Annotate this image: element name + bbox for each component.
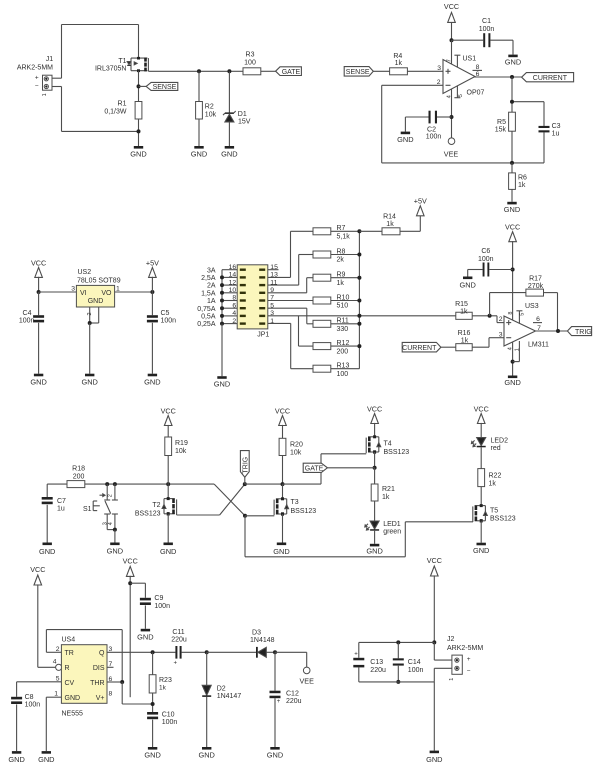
svg-text:GND: GND bbox=[473, 546, 489, 555]
svg-text:0,1/3W: 0,1/3W bbox=[104, 108, 127, 115]
svg-text:TRIG: TRIG bbox=[575, 329, 592, 336]
svg-text:NE555: NE555 bbox=[62, 710, 84, 717]
svg-text:8: 8 bbox=[508, 312, 514, 315]
svg-text:100n: 100n bbox=[19, 317, 35, 324]
svg-text:TRIG: TRIG bbox=[243, 457, 250, 474]
svg-text:100: 100 bbox=[244, 60, 256, 67]
svg-text:1k: 1k bbox=[337, 280, 345, 287]
svg-text:R15: R15 bbox=[455, 301, 468, 308]
svg-text:1,5A: 1,5A bbox=[201, 290, 216, 297]
svg-text:VCC: VCC bbox=[161, 406, 176, 415]
svg-text:R2: R2 bbox=[205, 103, 214, 110]
svg-text:1: 1 bbox=[42, 93, 48, 96]
svg-text:C11: C11 bbox=[172, 629, 184, 636]
svg-text:S1: S1 bbox=[83, 506, 92, 513]
svg-text:+5V: +5V bbox=[146, 258, 159, 267]
svg-text:T4: T4 bbox=[384, 441, 392, 448]
svg-text:R18: R18 bbox=[72, 466, 85, 473]
svg-text:R17: R17 bbox=[529, 275, 542, 282]
svg-text:0,25A: 0,25A bbox=[197, 321, 216, 328]
svg-text:100n: 100n bbox=[161, 317, 177, 324]
svg-text:8: 8 bbox=[109, 691, 113, 698]
svg-text:C8: C8 bbox=[25, 694, 34, 701]
svg-text:220u: 220u bbox=[171, 636, 187, 643]
svg-text:C6: C6 bbox=[481, 248, 490, 255]
svg-text:LED1: LED1 bbox=[383, 521, 401, 528]
svg-text:4: 4 bbox=[507, 347, 513, 350]
svg-text:100n: 100n bbox=[478, 256, 494, 263]
svg-text:2,5A: 2,5A bbox=[201, 275, 216, 282]
svg-text:C4: C4 bbox=[23, 310, 32, 317]
svg-text:GND: GND bbox=[137, 632, 153, 641]
svg-text:−: − bbox=[35, 83, 39, 90]
svg-text:OP07: OP07 bbox=[467, 90, 485, 97]
svg-text:C3: C3 bbox=[552, 123, 561, 130]
svg-text:2k: 2k bbox=[337, 257, 345, 264]
svg-text:GND: GND bbox=[144, 377, 160, 386]
svg-text:5: 5 bbox=[519, 313, 525, 316]
svg-text:GND: GND bbox=[505, 57, 521, 66]
svg-text:1N4148: 1N4148 bbox=[250, 637, 275, 644]
svg-text:GND: GND bbox=[8, 755, 24, 764]
svg-text:JP1: JP1 bbox=[257, 331, 269, 338]
svg-text:D1: D1 bbox=[238, 111, 247, 118]
svg-text:GND: GND bbox=[191, 150, 207, 159]
svg-text:C12: C12 bbox=[286, 690, 299, 697]
svg-text:R4: R4 bbox=[393, 53, 402, 60]
svg-text:C2: C2 bbox=[427, 126, 436, 133]
svg-text:VCC: VCC bbox=[123, 557, 138, 566]
svg-text:R12: R12 bbox=[337, 340, 350, 347]
svg-text:1A: 1A bbox=[207, 298, 216, 305]
svg-text:V+: V+ bbox=[96, 695, 105, 702]
svg-text:R1: R1 bbox=[118, 100, 127, 107]
svg-text:1: 1 bbox=[54, 691, 58, 698]
svg-text:100n: 100n bbox=[479, 26, 495, 33]
svg-text:R5: R5 bbox=[497, 119, 506, 126]
svg-text:+: + bbox=[174, 661, 178, 667]
svg-text:1k: 1k bbox=[518, 182, 526, 189]
svg-text:3A: 3A bbox=[207, 267, 216, 274]
svg-text:8: 8 bbox=[232, 295, 236, 302]
svg-text:R3: R3 bbox=[246, 52, 255, 59]
svg-text:GND: GND bbox=[366, 547, 382, 556]
svg-text:GND: GND bbox=[88, 298, 104, 305]
svg-text:1: 1 bbox=[449, 678, 455, 681]
svg-text:red: red bbox=[491, 445, 501, 452]
svg-text:SENSE: SENSE bbox=[346, 69, 370, 76]
svg-text:1k: 1k bbox=[460, 308, 468, 315]
svg-text:CURRENT: CURRENT bbox=[402, 345, 437, 352]
svg-text:GATE: GATE bbox=[282, 69, 301, 76]
svg-text:GND: GND bbox=[504, 378, 520, 387]
svg-text:1: 1 bbox=[116, 285, 120, 292]
svg-text:VCC: VCC bbox=[444, 2, 459, 11]
svg-text:C10: C10 bbox=[162, 711, 175, 718]
svg-text:LM311: LM311 bbox=[528, 342, 549, 349]
svg-text:2A: 2A bbox=[207, 283, 216, 290]
svg-text:GND: GND bbox=[214, 380, 230, 389]
svg-text:R10: R10 bbox=[337, 294, 350, 301]
svg-text:R23: R23 bbox=[159, 677, 172, 684]
svg-text:GND: GND bbox=[426, 755, 442, 764]
svg-text:270k: 270k bbox=[528, 283, 544, 290]
svg-text:3: 3 bbox=[437, 65, 441, 72]
svg-text:3: 3 bbox=[71, 285, 75, 292]
svg-text:T2: T2 bbox=[152, 502, 160, 509]
svg-text:1k: 1k bbox=[461, 337, 469, 344]
svg-text:100n: 100n bbox=[162, 719, 178, 726]
svg-text:GND: GND bbox=[221, 150, 237, 159]
svg-text:T5: T5 bbox=[490, 508, 498, 515]
svg-text:VCC: VCC bbox=[427, 556, 442, 565]
svg-text:200: 200 bbox=[337, 348, 349, 355]
svg-text:−: − bbox=[467, 667, 471, 674]
svg-text:100n: 100n bbox=[426, 133, 442, 140]
svg-text:2: 2 bbox=[87, 312, 93, 315]
svg-text:100: 100 bbox=[337, 371, 349, 378]
svg-text:10k: 10k bbox=[205, 112, 217, 119]
svg-text:4: 4 bbox=[446, 95, 452, 98]
svg-text:US3: US3 bbox=[525, 303, 539, 310]
svg-text:78L05 SOT89: 78L05 SOT89 bbox=[77, 278, 121, 285]
svg-text:1k: 1k bbox=[159, 684, 167, 691]
svg-text:ARK2-5MM: ARK2-5MM bbox=[17, 65, 53, 72]
svg-text:+: + bbox=[467, 656, 471, 663]
svg-text:US2: US2 bbox=[78, 269, 92, 276]
svg-text:5: 5 bbox=[458, 94, 464, 97]
svg-text:VO: VO bbox=[101, 290, 112, 297]
svg-text:VCC: VCC bbox=[474, 404, 489, 413]
svg-text:10: 10 bbox=[229, 287, 237, 294]
svg-text:green: green bbox=[383, 529, 401, 536]
svg-text:GND: GND bbox=[30, 377, 46, 386]
svg-text:7: 7 bbox=[537, 325, 541, 332]
svg-text:0,75A: 0,75A bbox=[197, 306, 216, 313]
svg-text:BSS123: BSS123 bbox=[291, 508, 317, 515]
svg-text:+: + bbox=[35, 74, 39, 81]
svg-text:1u: 1u bbox=[57, 506, 65, 513]
svg-text:GND: GND bbox=[81, 377, 97, 386]
svg-text:US4: US4 bbox=[62, 637, 76, 644]
svg-text:12: 12 bbox=[229, 279, 237, 286]
svg-text:+: + bbox=[354, 651, 358, 657]
svg-text:GND: GND bbox=[38, 755, 54, 764]
svg-text:5,1k: 5,1k bbox=[337, 234, 351, 241]
svg-text:R7: R7 bbox=[337, 225, 346, 232]
svg-text:3: 3 bbox=[499, 331, 503, 338]
svg-text:R21: R21 bbox=[382, 486, 395, 493]
svg-text:US1: US1 bbox=[463, 55, 477, 62]
svg-text:J1: J1 bbox=[46, 56, 54, 63]
svg-text:VEE: VEE bbox=[444, 150, 459, 159]
svg-text:10k: 10k bbox=[175, 448, 187, 455]
svg-text:1: 1 bbox=[515, 348, 521, 351]
svg-text:R11: R11 bbox=[337, 318, 349, 325]
svg-text:R19: R19 bbox=[175, 440, 188, 447]
svg-text:C14: C14 bbox=[408, 659, 421, 666]
svg-text:1N4147: 1N4147 bbox=[217, 693, 242, 700]
svg-text:C9: C9 bbox=[154, 595, 163, 602]
svg-text:1u: 1u bbox=[552, 131, 560, 138]
svg-text:15V: 15V bbox=[238, 118, 251, 125]
svg-text:C13: C13 bbox=[370, 659, 383, 666]
svg-text:VI: VI bbox=[80, 290, 87, 297]
svg-text:R22: R22 bbox=[489, 472, 502, 479]
svg-text:GND: GND bbox=[504, 205, 520, 214]
svg-text:Q: Q bbox=[99, 650, 105, 657]
svg-text:BSS123: BSS123 bbox=[490, 516, 516, 523]
svg-text:D2: D2 bbox=[217, 686, 226, 693]
svg-text:14: 14 bbox=[229, 272, 237, 279]
svg-text:TR: TR bbox=[65, 650, 74, 657]
svg-text:R16: R16 bbox=[458, 330, 471, 337]
svg-text:200: 200 bbox=[73, 473, 85, 480]
svg-text:T1: T1 bbox=[118, 58, 126, 65]
svg-text:1k: 1k bbox=[395, 60, 403, 67]
svg-text:VCC: VCC bbox=[505, 223, 520, 232]
svg-text:R6: R6 bbox=[518, 175, 527, 182]
svg-text:GND: GND bbox=[273, 547, 289, 556]
svg-text:BSS123: BSS123 bbox=[135, 511, 161, 518]
svg-text:BSS123: BSS123 bbox=[384, 449, 410, 456]
svg-text:6: 6 bbox=[476, 71, 480, 78]
svg-text:DIS: DIS bbox=[93, 665, 105, 672]
svg-text:D3: D3 bbox=[252, 630, 261, 637]
svg-text:R20: R20 bbox=[290, 442, 303, 449]
svg-text:6: 6 bbox=[536, 316, 540, 323]
svg-text:VCC: VCC bbox=[31, 258, 46, 267]
svg-text:15k: 15k bbox=[495, 126, 507, 133]
svg-text:GND: GND bbox=[267, 750, 283, 759]
svg-text:C1: C1 bbox=[482, 18, 491, 25]
svg-text:GND: GND bbox=[160, 547, 176, 556]
svg-text:T3: T3 bbox=[291, 499, 299, 506]
svg-text:GND: GND bbox=[130, 150, 146, 159]
svg-text:GND: GND bbox=[39, 547, 55, 556]
svg-text:1k: 1k bbox=[382, 494, 390, 501]
svg-text:R8: R8 bbox=[337, 248, 346, 255]
svg-text:C5: C5 bbox=[161, 310, 170, 317]
svg-text:R14: R14 bbox=[383, 213, 396, 220]
svg-text:220u: 220u bbox=[286, 698, 302, 705]
svg-text:100n: 100n bbox=[408, 667, 424, 674]
svg-text:CV: CV bbox=[65, 680, 75, 687]
svg-text:GND: GND bbox=[144, 751, 160, 760]
svg-text:GND: GND bbox=[397, 135, 413, 144]
svg-text:SENSE: SENSE bbox=[153, 84, 177, 91]
svg-text:1k: 1k bbox=[386, 221, 394, 228]
svg-text:1k: 1k bbox=[489, 480, 497, 487]
svg-text:GND: GND bbox=[198, 750, 214, 759]
svg-text:GND: GND bbox=[107, 546, 123, 555]
svg-text:GATE: GATE bbox=[305, 466, 324, 473]
svg-text:VEE: VEE bbox=[300, 676, 315, 685]
svg-text:ARK2-5MM: ARK2-5MM bbox=[447, 645, 483, 652]
svg-text:GND: GND bbox=[459, 280, 475, 289]
svg-text:0,5A: 0,5A bbox=[201, 314, 216, 321]
svg-text:4: 4 bbox=[232, 310, 236, 317]
svg-text:VCC: VCC bbox=[30, 565, 45, 574]
svg-text:CURRENT: CURRENT bbox=[533, 75, 568, 82]
svg-text:THR: THR bbox=[90, 680, 104, 687]
svg-text:330: 330 bbox=[337, 326, 349, 333]
svg-text:+: + bbox=[277, 699, 281, 705]
svg-text:GND: GND bbox=[65, 695, 81, 702]
svg-text:4: 4 bbox=[53, 658, 57, 665]
svg-text:LED2: LED2 bbox=[491, 437, 509, 444]
svg-text:510: 510 bbox=[337, 303, 349, 310]
svg-text:IRL3705N: IRL3705N bbox=[95, 66, 127, 73]
svg-text:10k: 10k bbox=[290, 450, 302, 457]
svg-text:+5V: +5V bbox=[414, 197, 427, 206]
svg-text:R9: R9 bbox=[337, 272, 346, 279]
svg-text:VCC: VCC bbox=[367, 404, 382, 413]
svg-text:2: 2 bbox=[108, 494, 114, 497]
svg-text:2: 2 bbox=[499, 316, 503, 323]
svg-text:100n: 100n bbox=[154, 603, 170, 610]
svg-text:4: 4 bbox=[108, 522, 114, 525]
svg-text:16: 16 bbox=[229, 264, 237, 271]
svg-text:6: 6 bbox=[232, 302, 236, 309]
svg-text:R13: R13 bbox=[337, 363, 350, 370]
svg-text:C7: C7 bbox=[57, 498, 66, 505]
svg-text:220u: 220u bbox=[370, 667, 386, 674]
svg-text:7: 7 bbox=[446, 59, 452, 62]
svg-text:R: R bbox=[65, 665, 70, 672]
svg-text:100n: 100n bbox=[25, 702, 41, 709]
svg-text:2: 2 bbox=[232, 318, 236, 325]
svg-text:J2: J2 bbox=[447, 636, 455, 643]
svg-text:VCC: VCC bbox=[275, 406, 290, 415]
